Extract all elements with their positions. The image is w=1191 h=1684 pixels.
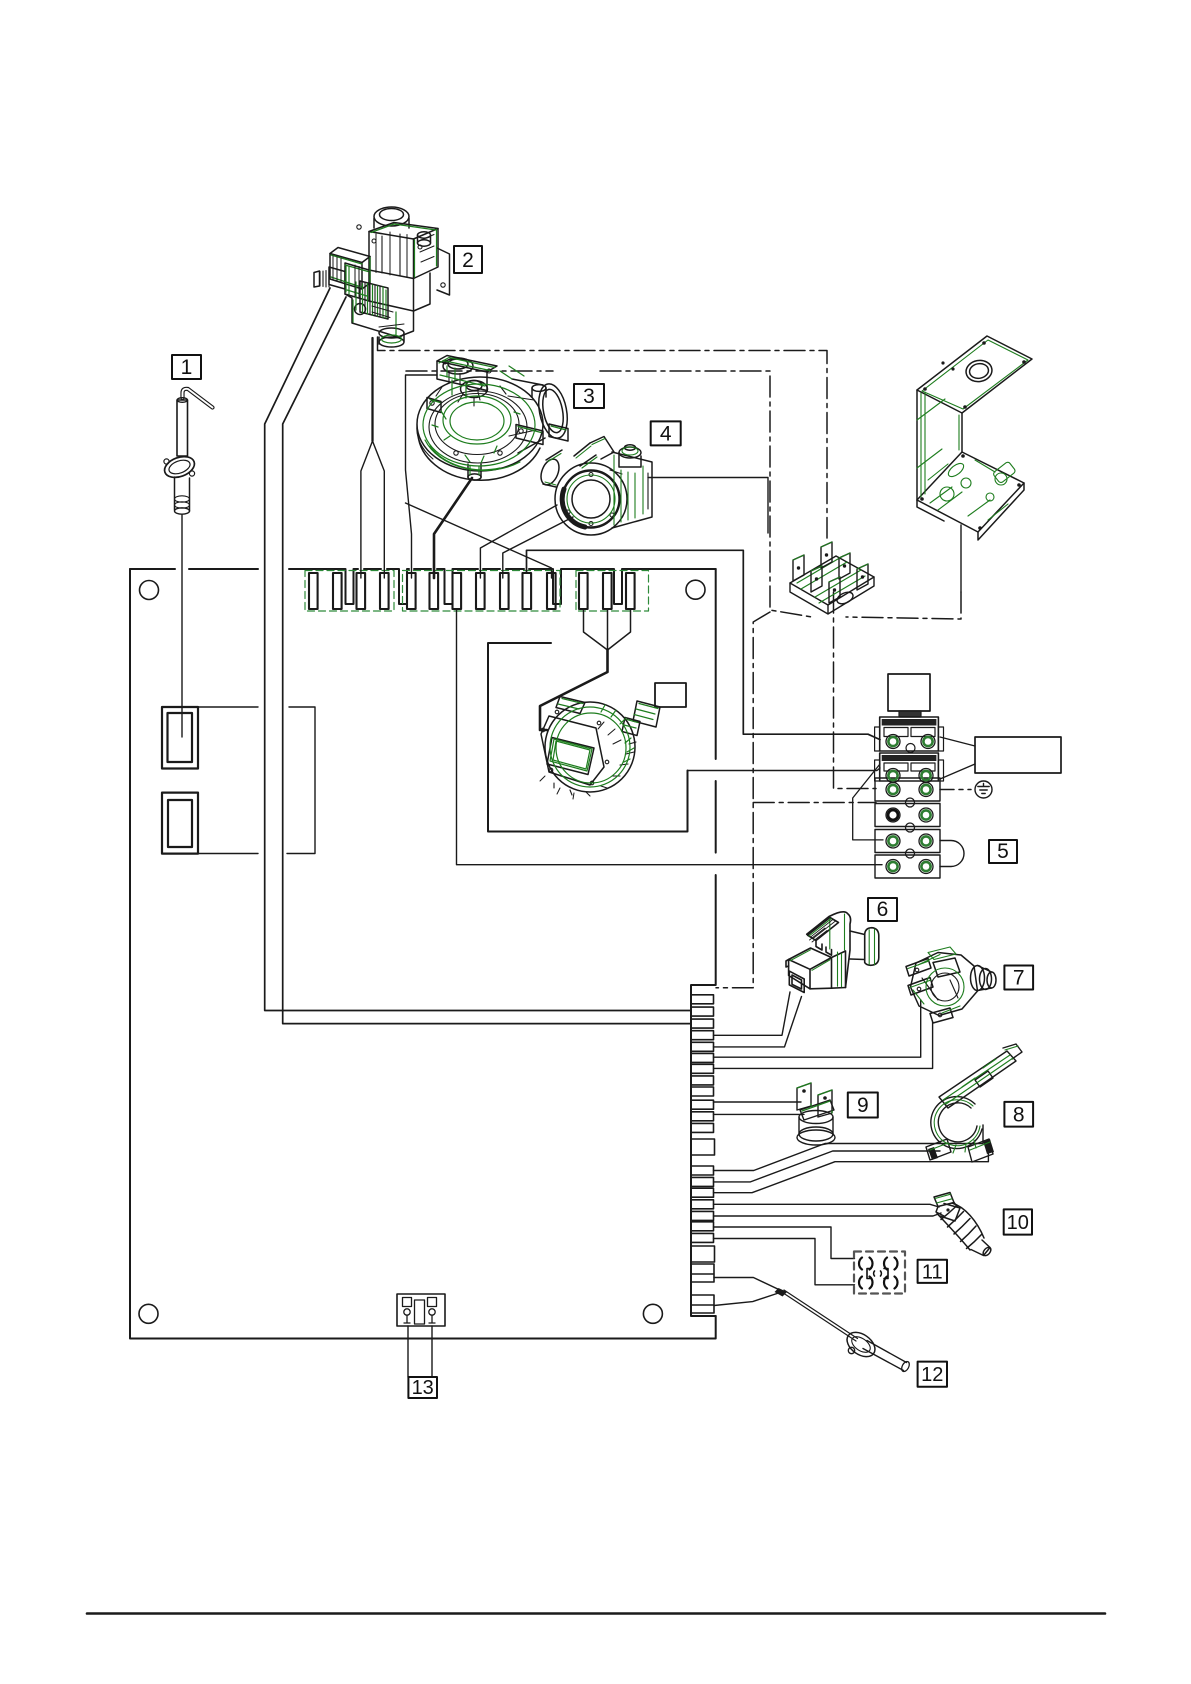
block 2 bbox=[880, 753, 939, 781]
svg-text:7: 7 bbox=[1013, 967, 1025, 990]
pump 4 bbox=[538, 437, 652, 536]
chassis phantom stem bbox=[960, 525, 962, 592]
phantom dash-dot: ground symbol link bbox=[940, 789, 971, 791]
svg-text:5: 5 bbox=[997, 840, 1009, 863]
wire: tab 10 over the top to block row1 bbox=[527, 550, 881, 739]
thermostat 9 bbox=[797, 1083, 835, 1145]
wire: pump to tab 9 bbox=[503, 517, 573, 578]
wire: comb G to connectors 11 bottom bbox=[714, 1239, 855, 1285]
footer rule bbox=[87, 1612, 1105, 1615]
phantom dash-dot: chassis down to spade block bbox=[846, 592, 961, 619]
connector 13 bbox=[397, 1294, 445, 1326]
phantom dash-dot: y371 line from fan area to block left bbox=[406, 371, 812, 617]
ladder rows bbox=[875, 778, 940, 801]
wire: comb B to clamp 8 foot bbox=[714, 1151, 941, 1182]
earth symbol bbox=[975, 781, 992, 798]
display pump (centre) bbox=[540, 697, 660, 800]
PCB board outline bbox=[130, 569, 716, 1339]
label 7 bbox=[1004, 966, 1033, 990]
wire: diagonal to tab 11 bbox=[406, 503, 552, 578]
small box right of display pump bbox=[655, 683, 686, 707]
wire: comb F to connectors 11 top bbox=[714, 1227, 855, 1259]
comb housing end bump B bbox=[691, 1246, 715, 1262]
label 2 bbox=[454, 246, 482, 273]
wires: connector 13 leads to label bbox=[408, 1326, 432, 1377]
board mounting hole bottom-left bbox=[139, 1304, 158, 1323]
connectors 11 bbox=[854, 1252, 905, 1294]
phantom dash-dot: valve outlet down and across y350 to block top bbox=[378, 337, 828, 538]
wire: valve pair line B bbox=[283, 297, 691, 1024]
wire: pump right to terminal block bbox=[648, 478, 768, 534]
svg-text:3: 3 bbox=[583, 385, 595, 408]
left connector housing box 2 bbox=[162, 793, 198, 854]
comb housing end bump A bbox=[691, 1139, 715, 1155]
label 3 bbox=[574, 384, 604, 408]
wire: comb t4 to switch 6 bbox=[714, 992, 791, 1035]
wire: fan to tab 5 bbox=[406, 375, 438, 578]
pressure switch 7 bbox=[906, 947, 996, 1023]
right edge comb teeth group 1 bbox=[691, 995, 714, 1133]
wire: fan to tab 6 (bold) bbox=[434, 478, 472, 578]
spade terminal block bbox=[790, 542, 874, 614]
wire: valve pair line A bbox=[265, 288, 691, 1011]
wire: comb C to clamp 8 right bbox=[714, 1140, 989, 1193]
clamp sensor 8 bbox=[926, 1044, 1022, 1162]
wire: Y bundle from tabs 12,13,14 to display pump (bold) bbox=[584, 609, 631, 650]
left connector region outline bbox=[198, 707, 315, 854]
wire: valve split legs bbox=[361, 441, 384, 578]
label 4 bbox=[651, 421, 681, 445]
gas valve 2 bbox=[314, 207, 450, 347]
green dashed connector housings over top tabs bbox=[305, 571, 649, 612]
board mounting hole top-right bbox=[686, 580, 705, 599]
block 1 bbox=[880, 717, 939, 751]
sensor 10 bbox=[934, 1193, 992, 1258]
wire: display box to terminal block row2 bbox=[688, 768, 881, 771]
phantom dash-dot: vertical x753 with strip branch, down to comb bbox=[716, 612, 876, 988]
wire: pump to tab 8 bbox=[480, 505, 557, 578]
hairpin to label 5 bbox=[940, 841, 964, 867]
wire: comb t11 to thermostat 9 bbox=[714, 1113, 805, 1115]
label 13 bbox=[408, 1377, 437, 1399]
top connector tabs row bbox=[309, 573, 635, 609]
svg-text:13: 13 bbox=[412, 1377, 434, 1399]
phantom dash-dot: block bottom to strip ground row bbox=[834, 592, 877, 789]
comb lower tooth H bbox=[691, 1264, 714, 1282]
right edge comb teeth group 2 bbox=[691, 1166, 714, 1242]
mains white box bbox=[975, 737, 1061, 773]
wire: comb H,I to probe 12 taper bbox=[714, 1278, 783, 1306]
comb lower tooth I bbox=[691, 1295, 714, 1313]
strip jumper bbox=[853, 764, 883, 840]
label 12 bbox=[918, 1362, 947, 1387]
wire: tab 7 down to block bottom row bbox=[457, 609, 883, 865]
fan 3 bbox=[417, 356, 572, 481]
electrode 1 bbox=[162, 389, 213, 514]
label 6 bbox=[868, 898, 897, 921]
label 8 bbox=[1004, 1102, 1033, 1127]
terminal strip 5 bbox=[853, 674, 1061, 878]
svg-text:6: 6 bbox=[877, 898, 889, 921]
svg-text:9: 9 bbox=[857, 1094, 869, 1117]
label 1 bbox=[172, 355, 201, 379]
board mounting hole bottom-right bbox=[643, 1304, 662, 1323]
svg-text:10: 10 bbox=[1007, 1212, 1029, 1234]
svg-text:8: 8 bbox=[1013, 1103, 1025, 1126]
svg-text:1: 1 bbox=[181, 356, 193, 379]
svg-text:12: 12 bbox=[921, 1364, 943, 1386]
wire: comb A to clamp 8 left bbox=[714, 1125, 984, 1171]
svg-text:4: 4 bbox=[660, 422, 672, 445]
label 11 bbox=[918, 1260, 947, 1284]
wire: comb t6 to pressure switch 7 bbox=[714, 1000, 921, 1057]
display pump surrounding box bbox=[488, 643, 688, 832]
wire: comb E to sensor 10 bbox=[714, 1213, 942, 1216]
switch 6 bbox=[786, 912, 879, 993]
wire: comb t5 to switch 6 bbox=[714, 997, 802, 1047]
label 9 bbox=[848, 1093, 878, 1118]
wire: valve to tabs 3,4 bold stem bbox=[371, 338, 373, 441]
wire: comb t7 to pressure switch 7 bbox=[714, 1022, 933, 1068]
label 5 bbox=[989, 840, 1017, 863]
wire: comb t10 to thermostat 9 bbox=[714, 1101, 802, 1103]
wire: comb D to sensor 10 bbox=[714, 1204, 940, 1207]
board mounting hole top-left bbox=[140, 581, 159, 600]
svg-text:11: 11 bbox=[922, 1261, 943, 1283]
svg-text:2: 2 bbox=[462, 249, 474, 272]
wire: electrode lead bbox=[181, 515, 183, 737]
label 10 bbox=[1004, 1209, 1032, 1234]
probe 12 bbox=[775, 1288, 911, 1373]
left connector housing box 1 bbox=[162, 707, 198, 769]
chassis bracket (top right) bbox=[917, 336, 1032, 592]
